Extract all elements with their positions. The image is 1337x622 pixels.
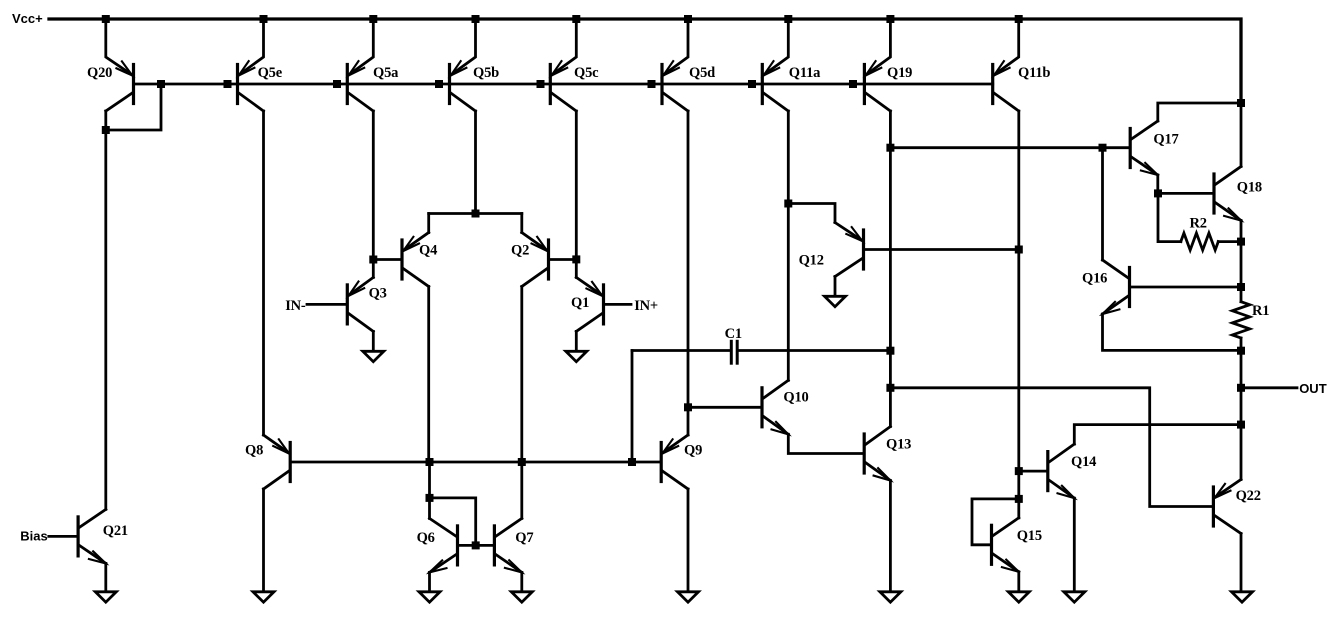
- svg-text:Q9: Q9: [684, 443, 702, 459]
- svg-text:Q6: Q6: [417, 530, 435, 546]
- svg-text:Q5b: Q5b: [473, 65, 499, 81]
- svg-text:OUT: OUT: [1299, 381, 1327, 396]
- svg-text:Q5e: Q5e: [258, 65, 283, 81]
- svg-text:Q11a: Q11a: [789, 65, 821, 81]
- svg-text:Q14: Q14: [1071, 454, 1096, 470]
- svg-text:IN+: IN+: [634, 298, 658, 314]
- svg-text:R2: R2: [1190, 216, 1207, 232]
- svg-text:Q7: Q7: [515, 530, 533, 546]
- svg-text:C1: C1: [725, 326, 742, 342]
- svg-text:Q20: Q20: [87, 65, 112, 81]
- svg-text:R1: R1: [1252, 303, 1269, 319]
- svg-text:Q10: Q10: [783, 390, 808, 406]
- svg-text:Vcc+: Vcc+: [12, 11, 43, 26]
- svg-text:Q21: Q21: [103, 523, 128, 539]
- svg-text:Q2: Q2: [511, 243, 529, 259]
- svg-text:Q5c: Q5c: [574, 65, 599, 81]
- svg-text:Q4: Q4: [419, 243, 437, 259]
- svg-text:Q3: Q3: [369, 286, 387, 302]
- svg-text:IN-: IN-: [285, 298, 306, 314]
- svg-text:Bias: Bias: [20, 529, 47, 544]
- svg-text:Q16: Q16: [1082, 271, 1107, 287]
- svg-text:Q1: Q1: [571, 295, 589, 311]
- svg-text:Q18: Q18: [1237, 180, 1262, 196]
- svg-text:Q17: Q17: [1153, 132, 1178, 148]
- svg-text:Q13: Q13: [886, 437, 911, 453]
- svg-text:Q5a: Q5a: [373, 65, 399, 81]
- svg-text:Q19: Q19: [887, 65, 912, 81]
- svg-text:Q11b: Q11b: [1018, 65, 1050, 81]
- svg-text:Q5d: Q5d: [689, 65, 715, 81]
- svg-text:Q8: Q8: [245, 443, 263, 459]
- svg-text:Q22: Q22: [1236, 488, 1261, 504]
- svg-text:Q15: Q15: [1017, 528, 1042, 544]
- svg-text:Q12: Q12: [799, 253, 824, 269]
